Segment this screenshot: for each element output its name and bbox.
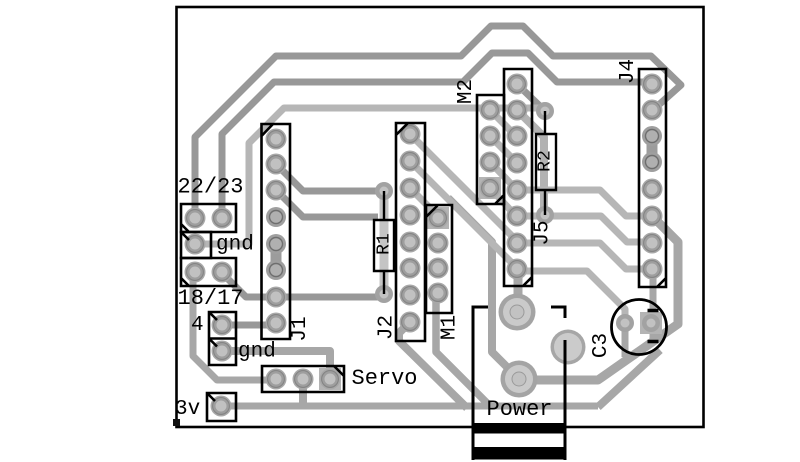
svg-text:M1: M1 — [439, 315, 462, 340]
resistor R1 body and leads — [374, 191, 394, 294]
svg-text:J4: J4 — [617, 59, 640, 84]
resistor R2 body and leads — [536, 111, 556, 215]
connector 18/17 pads — [185, 262, 233, 283]
Servo pads — [266, 369, 341, 390]
wire J2 pad2 diagonal to J5 pad8 — [410, 161, 517, 268]
Servo pad3 square — [319, 368, 341, 390]
board corner origin mark — [173, 419, 180, 426]
wire J2 pad3 diagonal to M1 pad1 — [410, 188, 438, 216]
connector 3v outline — [207, 393, 236, 421]
board outline — [177, 7, 704, 427]
connector 22/23 pads — [185, 208, 233, 229]
svg-text:M2: M2 — [455, 79, 478, 104]
wire J1 pad3 under R1 body — [276, 190, 378, 217]
wire mid diagonal down to Power pad2 — [448, 198, 519, 379]
gnd pad upper — [185, 234, 206, 255]
wire J1 pad2 to R1 top pad — [276, 164, 384, 191]
C3 pad2 square — [640, 312, 662, 334]
pad 3v — [211, 396, 232, 417]
R1 pads — [375, 182, 393, 303]
svg-text:Power: Power — [487, 397, 553, 422]
connector 18/17 outline — [181, 258, 236, 286]
capacitor C3 circle — [612, 300, 667, 355]
wire J2 pad1 diagonal to J5 pad7 — [410, 134, 517, 241]
wire net23 from pad 23 up across top to J4 pad1 — [222, 53, 650, 219]
header M2 outline — [477, 95, 504, 204]
svg-text:J5: J5 — [532, 220, 555, 245]
wire M1 pad4 down to bottom rail — [436, 296, 490, 406]
header J4 outline — [639, 69, 666, 287]
svg-text:R2: R2 — [536, 150, 556, 172]
svg-text:22/23: 22/23 — [178, 175, 244, 200]
M2 pads — [480, 100, 501, 199]
wire M2 pad4 to J5 pad6 — [490, 188, 516, 216]
pad 4 and gnd pad lower — [212, 315, 233, 362]
svg-text:C3: C3 — [590, 333, 613, 358]
J1 pads — [266, 129, 287, 334]
wire C3 pad2 up to J4 pad8 and down to sweep — [650, 269, 657, 343]
wire 18/17 pad2 to J1 pad7 and R1 bottom pad — [221, 272, 384, 297]
M2 pad4 square — [479, 177, 501, 199]
wire J2 pad8 down to bottom rail — [399, 322, 467, 408]
wire J5 pad2 under R2 body to R2 pad2 — [517, 110, 544, 215]
wire rail diagonal joining sweep — [598, 350, 660, 407]
connector 22/23 outline — [181, 204, 236, 232]
wire J5 pad8 to Power pad1 — [514, 271, 523, 312]
wire gnd pad to Servo pad3 — [222, 351, 330, 374]
wire J5 pad5 to J4 pad6 — [517, 190, 652, 216]
wire J5 pad6 R2 bottom to J4 pad7 — [517, 216, 652, 242]
wire gnd single pad up over top to M2 pad1 J5 pad2 R2 top — [195, 108, 544, 244]
R2 pads — [536, 102, 554, 224]
wire C3 pad1 stub down to sweep — [622, 323, 629, 357]
J2 pads — [400, 124, 421, 333]
capacitor C3 polarity bars — [648, 311, 659, 342]
connector gnd upper outline — [181, 232, 211, 258]
wire M2 pad1 to J5 pad3 — [490, 110, 516, 136]
wire J5 pad7 to J4 pad8 — [517, 243, 652, 269]
wire 18/17 pad1 down to Servo pad1 — [193, 273, 276, 380]
wire M2 pad2 to J5 pad4 — [490, 136, 516, 162]
wire Servo pad2 stub to bottom rail — [299, 379, 307, 406]
connector 4/gnd outline — [209, 312, 236, 365]
C3 pads — [616, 314, 660, 332]
wire J5 pad8 to C3 pad1 — [517, 271, 625, 318]
wire bottom rail 3v to Power area — [221, 403, 598, 410]
svg-text:R1: R1 — [375, 233, 395, 255]
Power connector black bar bottom — [472, 447, 567, 460]
J1 pads 5-6 link — [271, 244, 282, 270]
wire J4 pad6 around right side to Power pad2 — [519, 216, 678, 380]
M1 pads — [428, 208, 449, 304]
svg-text:Servo: Servo — [352, 366, 418, 391]
wire M2 pad3 to J5 pad5 — [490, 162, 516, 189]
Power mounting hole — [551, 330, 586, 365]
Power connector outline — [473, 307, 565, 460]
Power connector black bar top — [472, 423, 567, 434]
header J5 outline — [504, 69, 532, 286]
Power pad2 — [501, 361, 538, 398]
J4 pads — [642, 74, 663, 280]
connector Servo outline — [262, 366, 344, 392]
svg-text:3v: 3v — [175, 398, 200, 421]
svg-text:4: 4 — [191, 314, 204, 337]
svg-text:gnd: gnd — [216, 234, 254, 257]
header M1 outline — [426, 205, 452, 313]
J4 pads 3-4 link — [647, 136, 658, 162]
wire under R1 body — [380, 196, 389, 294]
svg-text:J2: J2 — [376, 315, 399, 340]
wire pad4 to J1 pad8 — [222, 322, 276, 329]
svg-text:gnd: gnd — [238, 341, 276, 364]
header J1 outline — [262, 124, 291, 339]
J5 pads — [507, 74, 528, 280]
Power pad1 — [499, 294, 536, 331]
wire J5 pad1 to R2 pad1 — [517, 84, 545, 111]
svg-text:J1: J1 — [289, 316, 312, 341]
header J2 outline — [396, 123, 425, 341]
M1 pad1 square — [427, 207, 449, 229]
wire net22 from pad 22 up across top to J4 pad2 — [195, 26, 681, 219]
svg-text:18/17: 18/17 — [178, 286, 244, 311]
